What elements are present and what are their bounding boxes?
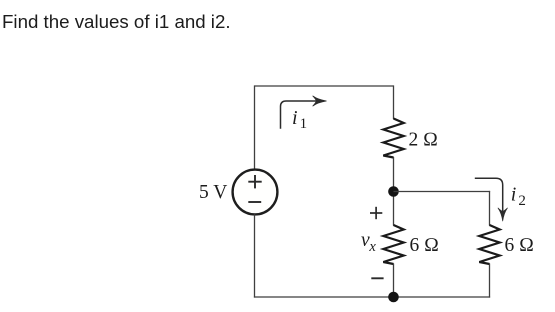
wire left lower [254, 214, 256, 297]
wire node A to right branch [394, 191, 491, 193]
svg-text:i: i [511, 183, 517, 205]
resistor R3 6Ω right [479, 225, 499, 264]
svg-text:6 Ω: 6 Ω [505, 235, 535, 256]
node dot A [388, 186, 399, 197]
wire middle upper [393, 85, 395, 119]
current arrow i2 [475, 178, 508, 221]
wire right upper [489, 191, 491, 226]
wire middle lower [393, 264, 395, 298]
wire left upper [254, 85, 256, 169]
svg-text:i: i [292, 107, 298, 129]
svg-text:Find the values of i1 and i2.: Find the values of i1 and i2. [2, 11, 231, 32]
label vx [361, 230, 376, 255]
svg-text:6 Ω: 6 Ω [410, 235, 440, 256]
label minus of vx [371, 277, 383, 279]
wire middle mid [393, 157, 395, 226]
label i2 [511, 183, 526, 208]
wire right lower [489, 264, 491, 298]
resistor R2 6Ω middle [383, 225, 403, 264]
wire bottom [254, 296, 490, 298]
svg-text:x: x [368, 239, 376, 255]
svg-text:2 Ω: 2 Ω [409, 130, 439, 151]
label plus of vx [370, 207, 382, 219]
current arrow i1 [281, 96, 327, 129]
svg-text:1: 1 [300, 116, 308, 132]
svg-text:2: 2 [518, 193, 526, 209]
svg-text:5 V: 5 V [199, 182, 227, 203]
wire top [255, 85, 394, 87]
label i1 [292, 107, 307, 132]
node dot B [388, 292, 399, 303]
resistor R1 2Ω [383, 119, 403, 158]
voltage source V1 5V [233, 170, 278, 215]
